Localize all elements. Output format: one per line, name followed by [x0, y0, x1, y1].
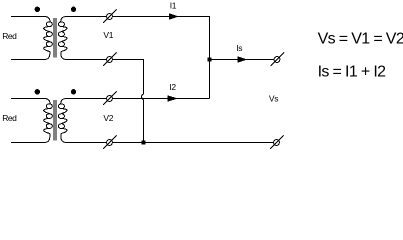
svg-text:I2: I2 [169, 82, 176, 92]
wire: T1 secondary top lead to right corner, down to I2 node [66, 17, 209, 99]
polarity dot T1 primary [35, 7, 40, 12]
svg-text:Is = I1 + I2: Is = I1 + I2 [318, 63, 387, 80]
wire: Is output from junction to connector [210, 59, 275, 61]
transformer T1 primary winding (left coil) with top/bottom lead wires [11, 17, 52, 60]
transformer T1 secondary winding (right coil) [58, 17, 67, 60]
wire: T1 secondary bottom lead to corner at x=143.5, down with hop over I2 wire, to bottom rail [66, 60, 143, 143]
transformer T2 primary winding (left coil) with top/bottom lead wires [11, 99, 52, 143]
polarity dot T1 secondary [71, 7, 76, 12]
polarity dot T2 secondary [71, 89, 76, 94]
arrow I2 [168, 95, 178, 101]
svg-text:I1: I1 [170, 0, 177, 10]
connector V1 top (circle with slash) [103, 9, 117, 23]
polarity dot T2 primary [35, 89, 40, 94]
svg-text:V1: V1 [103, 30, 113, 40]
connector Is (circle with slash) [271, 52, 285, 66]
svg-text:Red: Red [2, 31, 17, 41]
transformer T2 secondary winding (right coil) [58, 99, 67, 143]
transformer T1 core (two vertical lines) [54, 18, 56, 58]
arrow I1 [169, 13, 179, 19]
junction dot at bottom rail [142, 141, 146, 145]
svg-text:V2: V2 [103, 113, 113, 123]
connector Vs (circle with slash) [270, 135, 284, 149]
wire: T2 secondary bottom rail to Vs connector [66, 142, 273, 144]
connector V2 top (circle with slash) [103, 91, 117, 105]
transformer T2 core (two vertical lines) [54, 100, 56, 141]
wire: T2 secondary top lead (I2 wire) to corner x=209.5 [66, 98, 209, 100]
svg-text:Vs: Vs [269, 94, 278, 104]
svg-text:Red: Red [2, 113, 17, 123]
junction dot at Is node [208, 58, 212, 62]
svg-text:Is: Is [236, 43, 242, 53]
connector V2 bottom (circle with slash) [103, 135, 117, 149]
connector V1 bottom (circle with slash) [103, 52, 117, 66]
arrow Is [237, 56, 247, 62]
svg-text:Vs = V1 = V2: Vs = V1 = V2 [318, 30, 403, 47]
